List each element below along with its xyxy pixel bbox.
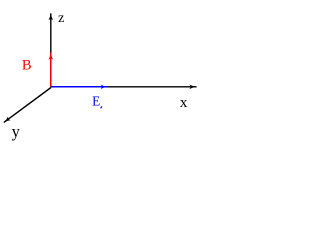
y-axis arrowhead xyxy=(4,116,11,122)
svg-text:E: E xyxy=(92,94,100,109)
z-axis arrowhead xyxy=(49,13,54,20)
comma mark after E xyxy=(101,106,102,108)
z-axis line xyxy=(50,13,52,87)
svg-text:x: x xyxy=(180,95,188,111)
svg-text:z: z xyxy=(58,11,64,26)
svg-text:B: B xyxy=(22,58,32,74)
svg-text:y: y xyxy=(12,122,21,141)
vector B arrowhead xyxy=(49,53,54,60)
vector E arrowhead xyxy=(101,85,108,90)
x-axis line xyxy=(51,86,197,88)
vector E line (blue, along x) xyxy=(51,86,108,88)
y-axis line xyxy=(4,88,51,123)
vector B line (red, along z) xyxy=(50,53,52,87)
x-axis arrowhead xyxy=(189,85,197,90)
